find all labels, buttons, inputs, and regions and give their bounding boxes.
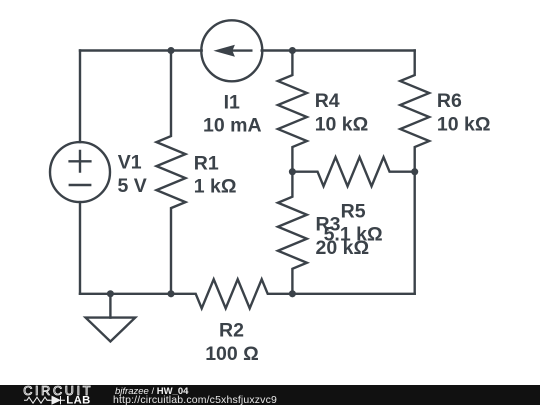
svg-text:10 kΩ: 10 kΩ (437, 114, 491, 136)
ground (86, 294, 136, 342)
node A top-left junction (167, 47, 174, 54)
node G bottom-right junction (289, 290, 296, 297)
node C middle-left junction (289, 168, 296, 175)
voltage source V1 (50, 142, 110, 202)
svg-text:http://circuitlab.com/c5xhsfju: http://circuitlab.com/c5xhsfjuxzvc9 (113, 394, 277, 405)
resistor R5 (292, 157, 414, 186)
node B top-right junction (289, 47, 296, 54)
svg-text:1 kΩ: 1 kΩ (194, 176, 237, 198)
current source I1 (201, 20, 262, 81)
node E ground junction (107, 290, 114, 297)
svg-text:I1: I1 (224, 92, 240, 114)
svg-text:100 Ω: 100 Ω (205, 343, 259, 365)
svg-text:R6: R6 (437, 90, 462, 112)
svg-text:R3: R3 (316, 214, 341, 236)
svg-text:20 kΩ: 20 kΩ (316, 237, 370, 259)
wire bottom rail right (292, 293, 414, 295)
svg-text:10 mA: 10 mA (203, 114, 262, 136)
footer bar (0, 384, 540, 405)
resistor R3 (278, 172, 307, 294)
svg-text:R4: R4 (315, 90, 340, 112)
wire right column lower (414, 172, 416, 294)
svg-text:R5: R5 (341, 200, 366, 222)
svg-text:5 V: 5 V (118, 175, 147, 197)
wire left column lower (79, 202, 81, 294)
svg-text:V1: V1 (118, 152, 142, 174)
wire top rail right (262, 49, 415, 51)
svg-text:LAB: LAB (66, 394, 90, 405)
resistor R6 (400, 51, 429, 172)
resistor R2 (171, 279, 292, 308)
resistor R1 (157, 51, 186, 294)
svg-text:R1: R1 (194, 153, 219, 175)
node F bottom junction (167, 290, 174, 297)
wire bottom rail left (80, 293, 171, 295)
CircuitLab logo (23, 384, 93, 405)
svg-text:R2: R2 (219, 319, 244, 341)
wire top rail left (80, 49, 202, 51)
node D middle-right junction (411, 168, 418, 175)
resistor R4 (278, 51, 307, 172)
svg-text:10 kΩ: 10 kΩ (315, 114, 369, 136)
wire left column upper (79, 51, 81, 143)
